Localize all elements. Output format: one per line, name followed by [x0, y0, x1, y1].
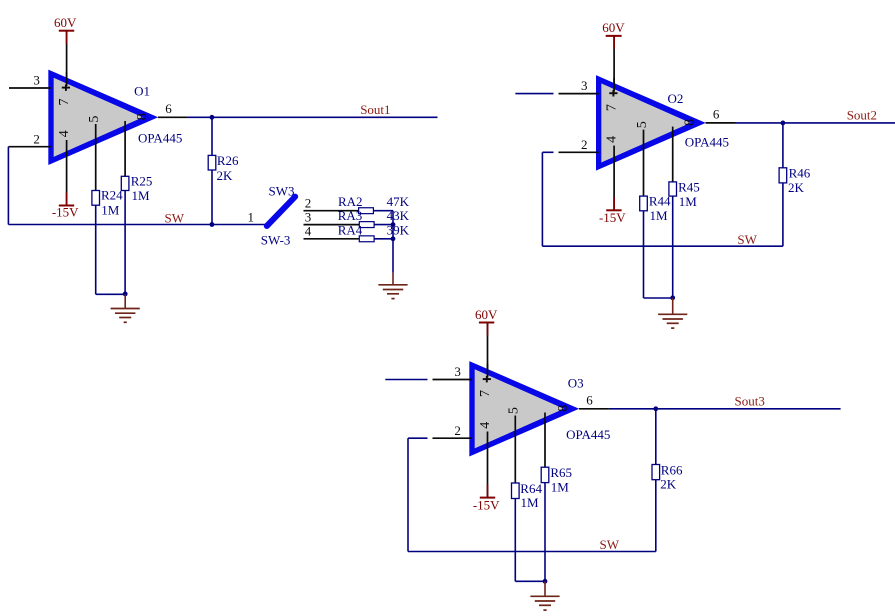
svg-text:1: 1: [248, 210, 255, 225]
svg-text:O1: O1: [134, 83, 150, 98]
svg-text:RA2: RA2: [338, 194, 363, 209]
wire R44 down: [643, 211, 645, 298]
wire net SW channel 1: [8, 224, 266, 226]
resistor R46 body: [779, 168, 787, 183]
svg-text:6: 6: [713, 107, 720, 122]
resistor RA2 body: [359, 208, 374, 214]
wire O2 pin 2 feedback vertical: [541, 152, 543, 246]
op-amp O2 body: [596, 75, 706, 170]
ground channel 2: [658, 314, 687, 328]
switch SW3 lever: [267, 197, 295, 226]
O2 pin 7 wire inside: [613, 78, 615, 92]
svg-text:SW-3: SW-3: [261, 233, 291, 248]
svg-text:1M: 1M: [132, 188, 151, 203]
svg-text:7: 7: [605, 104, 620, 111]
wire R64 to ground junction: [515, 580, 545, 582]
svg-text:60V: 60V: [54, 15, 77, 30]
ground stem (channel 3): [544, 581, 546, 596]
O1 pin 8 wire: [124, 121, 126, 176]
svg-text:2K: 2K: [217, 168, 234, 183]
wire RA ground rail vertical: [392, 211, 394, 273]
SW3 pin 2 wire: [304, 210, 359, 212]
O1 pin 7 wire inside: [66, 72, 68, 86]
O1 pin 3 wire: [9, 87, 51, 89]
svg-text:Sout2: Sout2: [847, 108, 877, 123]
svg-text:O2: O2: [668, 91, 684, 106]
wire output to R66: [655, 409, 657, 465]
wire R46 to SW: [782, 183, 784, 246]
junction node SW/R26: [210, 222, 215, 227]
O3 output wire (net Sout3): [579, 408, 609, 410]
O2 output wire (net Sout2): [706, 122, 736, 124]
svg-text:RA3: RA3: [338, 208, 363, 223]
wire 60V to O2 pin 7: [613, 36, 615, 92]
wire R65 down: [544, 483, 546, 582]
svg-text:2K: 2K: [660, 477, 677, 492]
O3 border: [469, 361, 579, 456]
svg-text:R45: R45: [678, 180, 700, 195]
svg-text:6: 6: [165, 101, 172, 116]
svg-text:2: 2: [33, 132, 40, 147]
resistor RA3 body: [359, 222, 374, 228]
svg-text:2: 2: [581, 137, 588, 152]
O2 border: [596, 75, 706, 170]
svg-text:OPA445: OPA445: [566, 427, 610, 442]
O2 plus marker: [609, 90, 617, 97]
O2 pin 5 wire: [643, 130, 645, 197]
resistor R24 body: [92, 191, 100, 206]
op-amp O1 body: [48, 70, 157, 165]
svg-text:O3: O3: [568, 375, 584, 390]
ground stem (channel 2): [672, 298, 674, 314]
junction node RA4 rail: [391, 236, 396, 241]
wire R26 to SW: [211, 170, 213, 225]
svg-text:R24: R24: [101, 188, 123, 203]
op-amp O3 body: [469, 361, 579, 456]
wire R64 down: [514, 499, 516, 582]
O3 plus marker: [483, 376, 491, 383]
svg-text:3: 3: [581, 78, 588, 93]
wire 60V to O1 pin 7: [66, 31, 68, 86]
svg-text:Sout1: Sout1: [360, 102, 390, 117]
O3 pin 2 wire: [408, 437, 428, 439]
junction node R64/R65 ground: [543, 579, 548, 584]
power port -15V (O2): [613, 197, 615, 210]
svg-text:OPA445: OPA445: [138, 130, 182, 145]
svg-text:7: 7: [478, 390, 493, 397]
junction node R24/R25 ground: [123, 292, 128, 297]
wire R24 down: [95, 205, 97, 294]
power port -15V (O1): [66, 193, 68, 206]
svg-text:4: 4: [305, 224, 312, 239]
svg-text:4: 4: [605, 136, 620, 143]
svg-text:1M: 1M: [551, 479, 570, 494]
svg-text:2K: 2K: [788, 180, 805, 195]
junction node RA3 rail: [391, 222, 396, 227]
svg-text:2: 2: [454, 423, 461, 438]
svg-text:5: 5: [635, 121, 650, 128]
svg-text:R64: R64: [520, 481, 542, 496]
resistor RA4 body: [359, 236, 374, 242]
svg-text:5: 5: [87, 116, 102, 123]
O2 pin 8 wire: [672, 127, 674, 182]
svg-text:3: 3: [454, 364, 461, 379]
svg-text:-15V: -15V: [473, 498, 500, 513]
resistor R64 body: [512, 483, 520, 499]
wire net SW channel 2: [542, 245, 783, 247]
wire R45 down: [672, 196, 674, 298]
wire output to R46: [782, 123, 784, 168]
O1 pin 2 wire: [8, 146, 51, 148]
wire 60V to O3 pin 7: [487, 323, 489, 378]
resistor R45 body: [669, 182, 677, 196]
ground stem (RA rail): [392, 273, 394, 285]
O1 plus marker: [62, 84, 70, 91]
wire RA4 to ground rail: [374, 238, 393, 240]
svg-text:6: 6: [586, 392, 593, 407]
svg-text:-15V: -15V: [52, 205, 79, 220]
power port -15V (O3): [487, 485, 489, 498]
wire net SW channel 3: [408, 551, 656, 553]
svg-text:4: 4: [478, 422, 493, 429]
O3 pin 4 wire to -15V: [487, 432, 489, 498]
svg-text:2: 2: [305, 196, 312, 211]
O3 pin 7 wire inside: [487, 364, 489, 378]
svg-text:SW3: SW3: [269, 183, 295, 198]
svg-text:R66: R66: [661, 462, 683, 477]
O3 pin 3 wire: [385, 379, 427, 381]
wire R25 down: [124, 191, 126, 295]
svg-text:7: 7: [57, 99, 72, 106]
svg-text:60V: 60V: [475, 307, 498, 322]
resistor R44 body: [640, 196, 648, 211]
svg-text:OPA445: OPA445: [685, 135, 729, 150]
svg-text:47K: 47K: [387, 194, 410, 209]
ground channel 1: [111, 309, 140, 323]
ground channel 3: [530, 596, 559, 610]
O2 pin 2 wire: [542, 151, 553, 153]
junction node R44/R45 ground: [670, 295, 675, 300]
svg-text:RA4: RA4: [338, 222, 363, 237]
wire RA3 to ground rail: [374, 224, 393, 226]
resistor R65 body: [541, 467, 549, 482]
O1 pin 4 wire to -15V: [66, 140, 68, 206]
svg-text:R65: R65: [550, 465, 572, 480]
svg-text:4: 4: [57, 130, 72, 137]
SW3 pin 4 wire: [304, 238, 360, 240]
svg-text:1M: 1M: [521, 495, 540, 510]
svg-text:1M: 1M: [650, 208, 669, 223]
svg-text:1M: 1M: [101, 203, 120, 218]
O3 pin 8 wire: [544, 413, 546, 468]
svg-text:SW: SW: [165, 210, 185, 225]
O2 pin 4 wire to -15V: [613, 146, 615, 211]
O3 pin 5 wire: [514, 416, 516, 484]
svg-text:8: 8: [556, 405, 571, 412]
svg-text:60V: 60V: [602, 20, 625, 35]
svg-text:-15V: -15V: [599, 210, 626, 225]
svg-text:8: 8: [135, 113, 150, 120]
wire R44 to ground junction: [644, 297, 673, 299]
svg-text:3: 3: [305, 210, 312, 225]
svg-text:R26: R26: [217, 153, 239, 168]
wire RA2 to ground rail: [373, 210, 393, 212]
ground stem (channel 1): [124, 294, 126, 308]
svg-text:Sout3: Sout3: [735, 393, 765, 408]
svg-text:R44: R44: [649, 194, 671, 209]
resistor R25 body: [121, 176, 129, 190]
O1 pin 5 wire: [95, 124, 97, 191]
O1 output wire (net Sout1): [158, 116, 188, 118]
wire R24 to ground junction: [96, 293, 126, 295]
O1 border: [48, 70, 157, 165]
svg-text:8: 8: [683, 119, 698, 126]
wire output to R26: [211, 117, 213, 155]
O2 pin 3 wire: [515, 93, 553, 95]
svg-text:SW: SW: [737, 232, 757, 247]
resistor R66 body: [652, 465, 660, 480]
svg-text:3: 3: [33, 72, 40, 87]
ground RA rail: [378, 285, 407, 299]
wire R66 to SW: [655, 480, 657, 552]
resistor R26 body: [208, 155, 216, 170]
svg-text:1M: 1M: [679, 194, 698, 209]
svg-text:R46: R46: [789, 165, 811, 180]
wire O3 pin 2 feedback vertical: [407, 438, 409, 551]
wire O1 pin 2 feedback vertical: [7, 147, 9, 225]
junction node Sout3/R66: [653, 406, 658, 411]
junction node Sout2/R46: [781, 121, 786, 126]
junction node Sout1/R26: [210, 115, 215, 120]
svg-text:SW: SW: [600, 537, 620, 552]
svg-text:R25: R25: [131, 174, 153, 189]
SW3 pin 3 wire: [304, 224, 360, 226]
svg-text:5: 5: [507, 407, 522, 414]
